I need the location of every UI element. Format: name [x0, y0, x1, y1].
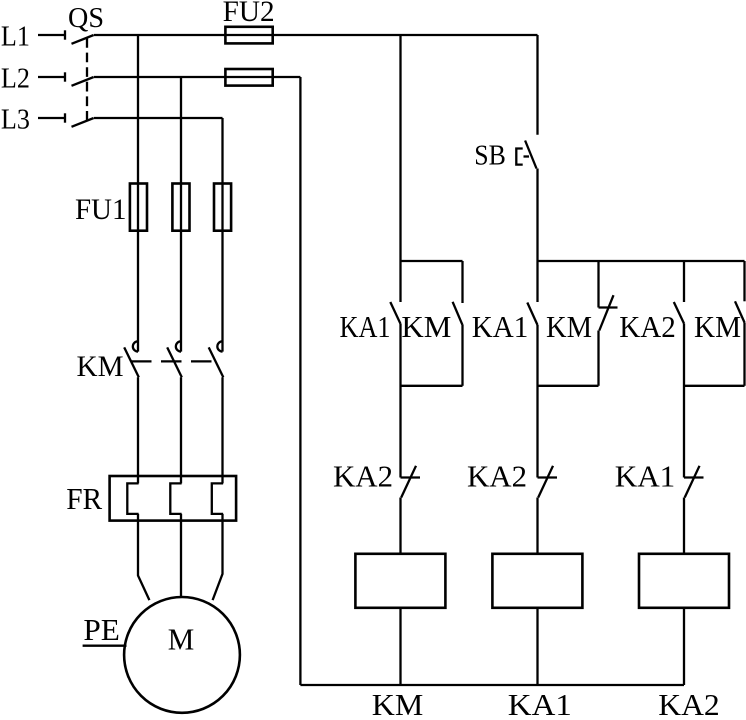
wire control right rail upper [536, 35, 538, 135]
QS mechanical linkage dashed line [86, 38, 88, 122]
svg-text:L3: L3 [1, 104, 30, 136]
motor M circle [124, 597, 240, 713]
KM main contacts linkage dashed line [131, 360, 213, 362]
wire control top bar branches 2-3 [538, 260, 745, 262]
wire phase A to motor [138, 514, 149, 600]
wire PE to motor frame [83, 645, 127, 647]
wire L2 from QS to control left rail [94, 76, 300, 78]
coil KA2 [639, 554, 729, 608]
svg-text:KA2: KA2 [467, 459, 527, 494]
wire branch 1 parallel top bar [401, 260, 463, 262]
wire L1 lead [38, 34, 65, 36]
contactor KM main contact phase C blade [209, 347, 224, 377]
wire branch 2 parallel branch lower [597, 331, 599, 386]
FR heater element phase A [127, 483, 138, 514]
fuse FU1 phase C [214, 184, 231, 231]
svg-text:FU2: FU2 [223, 0, 275, 28]
wire phase B vertical [180, 77, 182, 352]
svg-text:KM: KM [77, 350, 124, 383]
svg-text:KA2: KA2 [333, 459, 393, 494]
disconnect switch QS pole 2 contact tick [64, 72, 66, 81]
wire phase B to motor [180, 514, 182, 598]
svg-text:KM: KM [546, 309, 592, 344]
NC contact KA1 bar (branch 3) [684, 476, 704, 478]
fuse FU1 phase A [130, 184, 147, 231]
svg-text:KA2: KA2 [658, 687, 720, 720]
NC contact KA1 blade (branch 3) [685, 466, 700, 498]
wire control left rail vertical [299, 77, 301, 685]
wire branch 1 parallel bottom bar [401, 385, 463, 387]
NC contact KA2 bar (branch 2) [538, 476, 558, 478]
wire phase A vertical [137, 35, 139, 352]
contact KM blade (branch 3 parallel) [735, 301, 745, 322]
svg-text:L1: L1 [1, 21, 30, 53]
wire branch 1 middle vertical [399, 324, 401, 478]
wire coil KA2 to bottom bus [683, 608, 685, 685]
svg-text:L2: L2 [1, 63, 30, 95]
fuse FU1 phase B [172, 184, 189, 231]
NC contact KM blade (branch 2 parallel) [599, 295, 613, 330]
contact KM blade (branch 1 parallel) [453, 302, 463, 325]
contactor KM main contact phase B blade [167, 347, 182, 377]
fuse FU2 upper (L1) [225, 27, 272, 44]
svg-text:FU1: FU1 [75, 193, 127, 226]
svg-text:KM: KM [372, 687, 424, 720]
wire bottom bus [300, 684, 684, 686]
wire branch 1 parallel branch lower [461, 324, 463, 385]
wire phase C below KM [221, 377, 223, 483]
FR heater element phase C [212, 483, 223, 514]
wire L3 from QS [94, 117, 223, 119]
coil KM [355, 554, 445, 608]
disconnect switch QS pole 3 contact tick [64, 113, 66, 122]
NC contact KM bar (branch 2 parallel) [599, 306, 618, 308]
pushbutton SB actuator dashed link [524, 155, 530, 157]
wire phase C vertical [221, 118, 223, 352]
disconnect switch QS pole 1 contact tick [64, 30, 66, 39]
contact KA1 blade (branch 1) [390, 302, 400, 324]
wire phase C to motor [213, 514, 223, 600]
svg-text:FR: FR [66, 481, 102, 516]
svg-text:QS: QS [68, 2, 104, 34]
svg-text:KA1: KA1 [340, 309, 391, 344]
wire phase A below KM [137, 377, 139, 483]
disconnect switch QS pole 1 blade [72, 35, 94, 44]
wire branch 2 parallel bottom bar [538, 385, 599, 387]
contact KA2 blade (branch 3) [674, 302, 684, 324]
wire coil KM to bottom bus [399, 608, 401, 685]
contactor KM main contact phase A arc [133, 341, 138, 351]
svg-text:KM: KM [401, 309, 451, 344]
wire branch 3 vertical from top bar [683, 261, 685, 302]
wire branch 1 vertical from L1 rail [399, 35, 401, 302]
wire branch 1 parallel branch upper [461, 261, 463, 303]
wire branch 3 parallel branch lower [743, 323, 745, 386]
disconnect switch QS pole 3 blade [72, 118, 94, 127]
FR heater element phase B [170, 483, 181, 514]
wire SB to branch 2 contact [536, 169, 538, 303]
svg-text:KA1: KA1 [615, 459, 676, 494]
wire branch 3 parallel bottom bar [684, 385, 745, 387]
wire branch 3 to coil [683, 498, 685, 554]
pushbutton SB actuator bracket [516, 149, 522, 165]
NC contact KA2 blade (branch 2) [538, 466, 553, 498]
wire branch 1 to coil [399, 498, 401, 554]
wire branch 3 parallel branch upper [743, 261, 745, 301]
wire L3 lead [38, 117, 65, 119]
svg-text:KM: KM [694, 309, 741, 344]
svg-text:KA2: KA2 [619, 309, 676, 344]
coil KA1 [492, 554, 582, 608]
NC contact KA2 blade (branch 1) [401, 466, 416, 498]
svg-text:M: M [168, 622, 195, 657]
pushbutton SB blade [525, 141, 536, 169]
disconnect switch QS pole 2 blade [72, 77, 94, 86]
svg-text:PE: PE [83, 612, 120, 647]
wire branch 2 parallel branch upper [597, 261, 599, 308]
contactor KM main contact phase B arc [176, 341, 181, 351]
thermal overload relay FR enclosure [110, 476, 237, 521]
svg-text:KA1: KA1 [472, 309, 529, 344]
svg-text:KA1: KA1 [508, 687, 572, 720]
wire branch 2 middle vertical [536, 325, 538, 478]
wire coil KA1 to bottom bus [536, 608, 538, 685]
contact KA1 blade (branch 2) [527, 303, 537, 326]
NC contact KA2 bar (branch 1) [401, 476, 421, 478]
wire L2 lead [38, 76, 65, 78]
wire phase B below KM [180, 377, 182, 483]
fuse FU2 lower (L2) [225, 69, 272, 86]
svg-text:SB: SB [474, 141, 506, 172]
wire branch 2 to coil [536, 498, 538, 554]
wire branch 3 middle vertical [683, 324, 685, 478]
contactor KM main contact phase A blade [124, 347, 139, 377]
contactor KM main contact phase C arc [217, 341, 222, 351]
wire L1 from QS to control rail [94, 34, 538, 36]
